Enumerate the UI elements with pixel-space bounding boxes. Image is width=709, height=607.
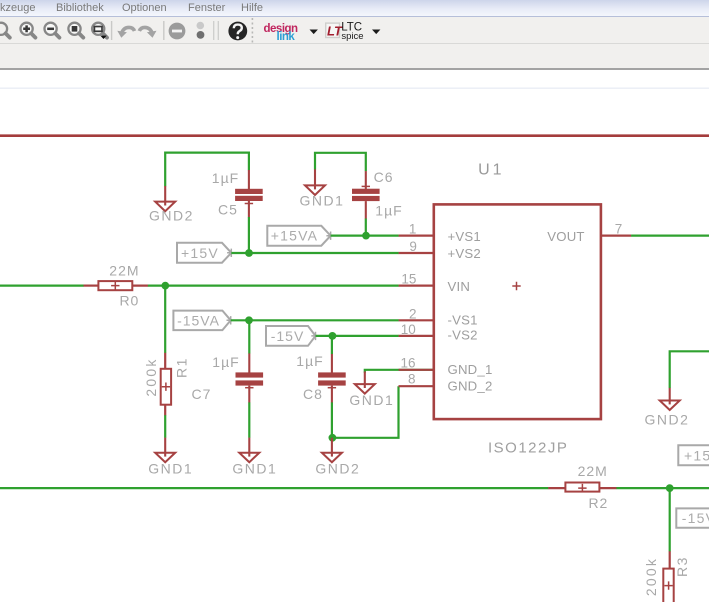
- stop icon grey circle minus: [169, 23, 186, 40]
- ground GND1 mid: [355, 372, 375, 394]
- wire pin 10 net: [316, 335, 399, 337]
- svg-text:-VS2: -VS2: [448, 328, 478, 343]
- ground GND1 top: [305, 169, 325, 195]
- svg-text:7: 7: [615, 221, 623, 236]
- ground GND2 top-left: [155, 186, 175, 211]
- wire C8 junction to pin 8: [332, 386, 398, 438]
- wire C8 column: [331, 336, 333, 354]
- wire C8 to GND junction: [331, 402, 333, 437]
- svg-text:1µF: 1µF: [212, 354, 239, 370]
- junction pin10/C8: [329, 332, 337, 340]
- junction pin9/C5: [245, 249, 253, 257]
- IC U1 box: [434, 204, 601, 419]
- resistor R1: [161, 353, 171, 416]
- svg-text:GND1: GND1: [148, 461, 193, 477]
- IC origin cross: [512, 282, 520, 290]
- toolbar separator: [111, 21, 113, 40]
- svg-text:VIN: VIN: [448, 279, 471, 294]
- zoom icon partial left: [0, 23, 10, 38]
- wire C5 to +15V junction: [248, 217, 250, 253]
- svg-text:2: 2: [409, 306, 417, 321]
- pin 15 lead: [399, 285, 434, 287]
- pin 10 lead: [399, 335, 434, 337]
- zoom select icon: [68, 23, 83, 38]
- wire VIN net left: [0, 285, 84, 287]
- pin 8 lead: [399, 385, 434, 387]
- svg-text:+15V: +15V: [684, 447, 709, 463]
- redo icon: [139, 27, 152, 33]
- wire bottom net left: [0, 487, 548, 489]
- ground GND2 right: [660, 388, 680, 410]
- toolbar double separator: [213, 21, 215, 40]
- svg-text:R3: R3: [674, 556, 690, 577]
- flag -15VA: [173, 311, 235, 331]
- svg-text:1µF: 1µF: [296, 353, 323, 369]
- svg-text:9: 9: [409, 239, 417, 254]
- junction pin2/C7: [245, 316, 253, 324]
- wire bottom net right: [616, 487, 709, 489]
- svg-text:C5: C5: [218, 202, 238, 218]
- svg-text:16: 16: [400, 355, 415, 370]
- flag +15V: [177, 243, 236, 263]
- pin 1 lead: [399, 235, 434, 237]
- junction R0/R1: [161, 282, 169, 290]
- svg-text:1µF: 1µF: [212, 170, 239, 186]
- svg-text:GND2: GND2: [315, 461, 360, 477]
- svg-text:GND1: GND1: [232, 461, 277, 477]
- svg-text:+VS1: +VS1: [448, 229, 481, 244]
- LTspice dropdown arrow: [372, 30, 380, 35]
- wire pin 1 net: [331, 235, 399, 237]
- flag +15VA: [267, 226, 335, 246]
- svg-text:+VS2: +VS2: [448, 246, 481, 261]
- svg-text:1: 1: [409, 222, 417, 237]
- zoom out icon: [45, 23, 60, 38]
- ground GND1 below C7: [239, 438, 259, 463]
- svg-text:GND2: GND2: [149, 208, 194, 224]
- junction C8/pin8 net: [329, 434, 337, 442]
- undo icon: [121, 27, 134, 33]
- flag +15V right clipped: [678, 445, 709, 465]
- flag -15V: [266, 326, 320, 346]
- wire junction down to R3: [669, 488, 671, 551]
- wire C6 to pin1 junction: [365, 219, 367, 236]
- capacitor C5: [235, 170, 263, 217]
- svg-text:C7: C7: [192, 386, 212, 402]
- svg-text:1µF: 1µF: [375, 203, 402, 219]
- resistor R3: [663, 551, 673, 604]
- svg-text:GND1: GND1: [349, 392, 394, 408]
- svg-text:R1: R1: [174, 357, 190, 378]
- svg-text:22M: 22M: [109, 262, 139, 278]
- wire R1 to GND: [164, 415, 166, 438]
- two dots icon: [197, 22, 205, 39]
- svg-text:-VS1: -VS1: [448, 313, 478, 328]
- svg-text:200k: 200k: [643, 557, 659, 596]
- menu bar: [0, 0, 709, 17]
- junction pin1/C6: [362, 232, 370, 240]
- pin 16 lead: [399, 369, 434, 371]
- svg-text:+15VA: +15VA: [271, 228, 318, 244]
- svg-text:GND_2: GND_2: [448, 378, 493, 393]
- svg-text:R2: R2: [588, 495, 608, 511]
- zoom rect icon with dropdown: [92, 23, 107, 39]
- frame border line: [0, 134, 709, 137]
- pin 7 lead: [601, 235, 631, 237]
- flag -15V right clipped: [676, 508, 709, 527]
- svg-text:ISO122JP: ISO122JP: [488, 440, 568, 457]
- wire pin 15 net: [148, 285, 399, 287]
- svg-text:VOUT: VOUT: [547, 229, 584, 244]
- pin 9 lead: [399, 252, 434, 254]
- svg-text:-15V: -15V: [271, 328, 305, 344]
- svg-text:8: 8: [408, 372, 416, 387]
- svg-text:GND1: GND1: [300, 192, 345, 208]
- wire pin 9 net: [231, 252, 398, 254]
- wire C7 to GND: [248, 402, 250, 437]
- wire net +15V loop top-left: [165, 153, 249, 187]
- junction R2/R3: [666, 484, 674, 492]
- wire pin 2 net: [231, 319, 399, 321]
- svg-text:GND_1: GND_1: [448, 362, 493, 377]
- svg-text:-15V: -15V: [682, 510, 709, 526]
- wire GND2 right net: [670, 351, 709, 388]
- svg-text:C8: C8: [303, 386, 323, 402]
- ground GND2 below C8: [322, 438, 342, 462]
- pin 2 lead: [399, 319, 434, 321]
- wire R0 junction down to R1: [164, 286, 166, 353]
- svg-text:200k: 200k: [143, 357, 159, 396]
- capacitor C7: [236, 353, 264, 402]
- capacitor C8: [318, 354, 346, 403]
- svg-text:10: 10: [401, 322, 416, 337]
- svg-text:-15VA: -15VA: [177, 312, 220, 328]
- svg-text:+15V: +15V: [181, 245, 219, 261]
- svg-text:spice: spice: [341, 31, 363, 42]
- svg-text:R0: R0: [119, 293, 139, 309]
- sheet guide line: [0, 87, 709, 89]
- svg-text:15: 15: [401, 272, 416, 287]
- wire net GND1 loop top: [315, 153, 366, 172]
- designlink logo: [264, 23, 299, 43]
- svg-text:C6: C6: [374, 169, 394, 185]
- svg-text:U1: U1: [478, 162, 504, 179]
- wire VOUT net: [631, 235, 709, 237]
- LTspice logo: [325, 22, 364, 42]
- svg-text:22M: 22M: [578, 463, 608, 479]
- wire C7 column: [248, 320, 250, 353]
- capacitor C6: [352, 171, 380, 219]
- ground GND1 below R1: [155, 438, 175, 463]
- resistor R0: [84, 281, 149, 290]
- toolbar: [0, 17, 709, 70]
- toolbar separator: [163, 21, 165, 40]
- wire pin 16 net: [365, 370, 434, 373]
- help icon: [228, 22, 247, 41]
- zoom in icon: [21, 23, 36, 38]
- toolbar grip dotted: [251, 18, 253, 43]
- resistor R2: [548, 483, 616, 493]
- svg-text:GND2: GND2: [645, 411, 690, 427]
- designlink dropdown arrow: [310, 30, 318, 35]
- svg-text:link: link: [277, 31, 296, 43]
